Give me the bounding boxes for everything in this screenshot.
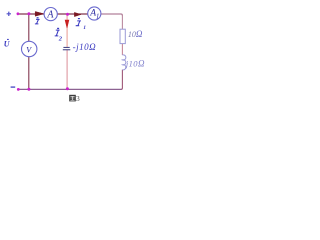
node top junction V branch bbox=[27, 12, 30, 15]
wire capacitor branch lower bbox=[66, 50, 68, 90]
wire voltmeter branch lower bbox=[28, 57, 30, 90]
node top-left terminal bbox=[17, 12, 20, 15]
label I2 (dot) bbox=[55, 28, 63, 43]
label I1 (dot) bbox=[76, 18, 87, 31]
wire bottom horizontal bbox=[18, 88, 122, 90]
inductor L coil bbox=[122, 55, 125, 70]
voltmeter V bbox=[22, 41, 37, 56]
wire voltmeter branch upper bbox=[28, 14, 30, 42]
node bottom junction capacitor branch bbox=[66, 87, 69, 90]
label I (dot) bbox=[35, 17, 40, 24]
capacitor C plates bbox=[63, 47, 71, 50]
minus terminal sign bbox=[11, 86, 16, 88]
current arrow I1 on top wire bbox=[74, 12, 81, 16]
label U source voltage (dot) bbox=[4, 39, 11, 49]
svg-text:j10Ω: j10Ω bbox=[125, 58, 145, 68]
svg-text:3: 3 bbox=[76, 94, 80, 103]
svg-text:-j10Ω: -j10Ω bbox=[73, 42, 97, 52]
wire right vertical (top corner to resistor) bbox=[121, 15, 123, 29]
resistor R 10ohm bbox=[120, 29, 125, 43]
ammeter A2 (right, labelled A1) bbox=[88, 7, 101, 21]
node bottom-left terminal bbox=[17, 88, 20, 91]
node top junction capacitor branch bbox=[66, 13, 69, 16]
svg-text:10Ω: 10Ω bbox=[128, 29, 143, 39]
wire top horizontal bbox=[18, 13, 101, 15]
wire right vertical (resistor to inductor) bbox=[121, 44, 123, 55]
svg-text:U: U bbox=[4, 40, 11, 49]
wire capacitor branch upper bbox=[66, 14, 68, 47]
node bottom junction V branch bbox=[27, 88, 30, 91]
svg-text:2: 2 bbox=[58, 35, 63, 42]
caption figure 3 bbox=[69, 94, 80, 103]
svg-text:A: A bbox=[46, 9, 54, 20]
svg-text:1: 1 bbox=[83, 25, 86, 31]
wire right vertical (inductor to bottom corner) bbox=[121, 70, 122, 90]
ammeter A1 (left, labelled A) bbox=[44, 8, 57, 21]
svg-text:1: 1 bbox=[96, 13, 100, 21]
plus terminal sign bbox=[7, 12, 11, 16]
current arrow I2 down capacitor branch bbox=[65, 20, 69, 28]
current arrow I on top wire bbox=[35, 12, 44, 17]
